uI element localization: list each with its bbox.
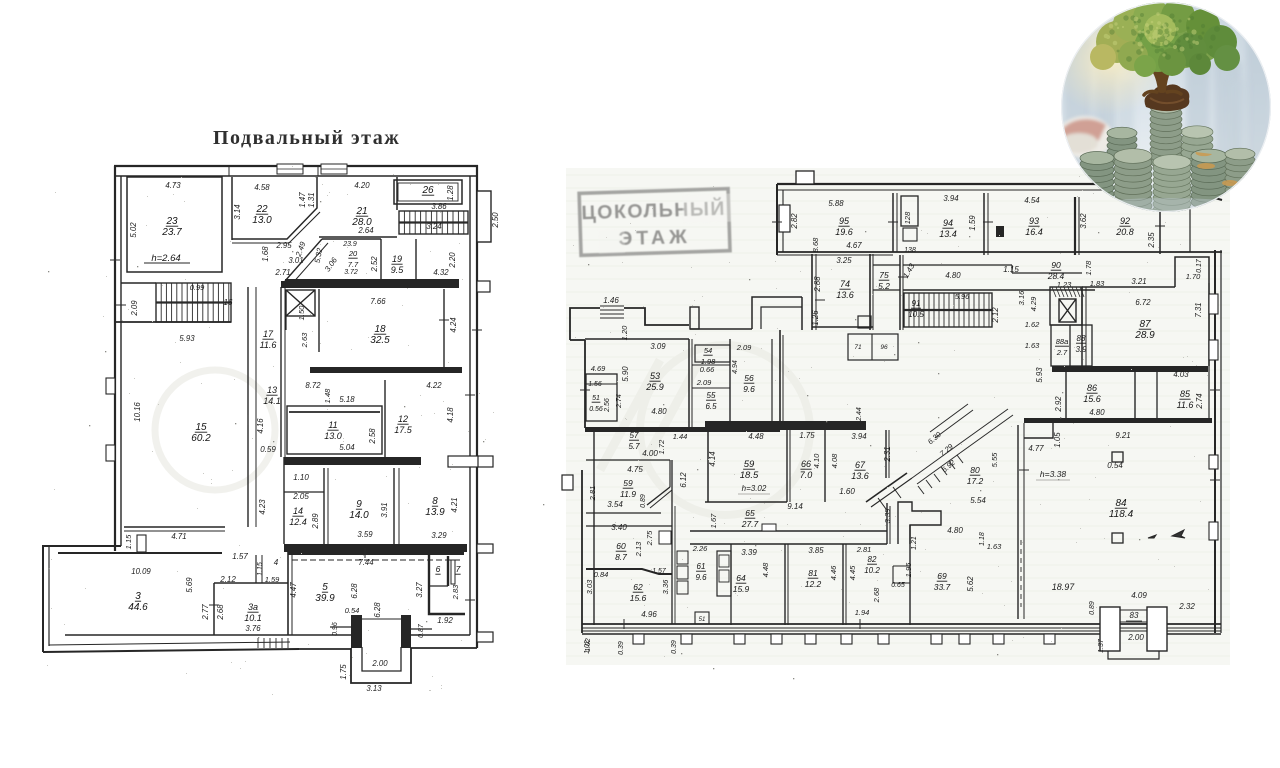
svg-text:4.71: 4.71 (171, 532, 186, 541)
pilaster (681, 634, 692, 644)
svg-text:1.47: 1.47 (298, 192, 307, 208)
svg-text:27.7: 27.7 (741, 519, 759, 529)
left block outer walls (570, 308, 600, 340)
svg-text:2.7: 2.7 (1056, 348, 1068, 357)
svg-text:2.68: 2.68 (872, 587, 881, 603)
room 9 walls (323, 468, 325, 544)
svg-text:3.36: 3.36 (661, 579, 670, 594)
photo sky (1061, 0, 1273, 215)
svg-text:2.82: 2.82 (790, 213, 799, 230)
svg-text:12.4: 12.4 (289, 517, 307, 527)
corridor step walls (1011, 265, 1013, 273)
svg-text:3.14: 3.14 (233, 204, 242, 220)
svg-text:60.2: 60.2 (191, 433, 211, 444)
svg-text:53: 53 (650, 371, 660, 381)
svg-text:1.72: 1.72 (657, 439, 666, 454)
svg-text:4.94: 4.94 (732, 360, 739, 374)
svg-text:5.62: 5.62 (966, 576, 975, 592)
svg-text:4.09: 4.09 (1131, 591, 1147, 600)
left plan (43, 164, 500, 693)
shaft 128 (901, 196, 918, 226)
svg-text:1.92: 1.92 (437, 616, 453, 625)
svg-text:3а: 3а (248, 602, 258, 612)
svg-text:13.4: 13.4 (939, 229, 957, 239)
band steps (762, 524, 776, 531)
svg-text:94: 94 (943, 218, 953, 228)
pilaster (805, 634, 816, 644)
svg-text:3.25: 3.25 (836, 256, 852, 265)
alcove walls right of 69 (898, 502, 941, 544)
right wall pilaster 3 (1209, 455, 1218, 469)
svg-text:28.9: 28.9 (1134, 330, 1155, 341)
svg-text:4.32: 4.32 (433, 268, 449, 277)
svg-text:0.54: 0.54 (345, 606, 360, 615)
stair protrusion bottom (351, 615, 362, 648)
room 26 (394, 180, 462, 204)
photo red blob (1057, 116, 1113, 158)
svg-text:64: 64 (736, 573, 746, 583)
svg-text:4.80: 4.80 (1089, 408, 1105, 417)
stairs left (156, 283, 231, 322)
svg-text:2.92: 2.92 (1054, 396, 1063, 413)
svg-text:44.6: 44.6 (128, 602, 148, 613)
svg-text:0.59: 0.59 (260, 445, 276, 454)
svg-text:2.44: 2.44 (856, 407, 863, 422)
svg-text:5.93: 5.93 (1035, 367, 1044, 383)
svg-text:10.09: 10.09 (131, 567, 151, 576)
svg-text:0.89: 0.89 (1089, 601, 1096, 615)
svg-text:ЭТАЖ: ЭТАЖ (618, 226, 691, 250)
loose coins (1094, 192, 1260, 220)
svg-text:1.28: 1.28 (446, 185, 455, 201)
svg-text:12.2: 12.2 (805, 579, 822, 589)
stairs left lower wall (115, 321, 231, 323)
corridor 4 walls (255, 555, 257, 583)
svg-text:1.59: 1.59 (265, 575, 280, 584)
svg-text:5.69: 5.69 (185, 577, 194, 593)
svg-text:4.10: 4.10 (812, 453, 821, 468)
svg-text:3.94: 3.94 (851, 432, 867, 441)
svg-text:9.6: 9.6 (695, 573, 707, 582)
room 61 marker box (695, 612, 709, 624)
wall band mid (284, 457, 421, 465)
svg-text:4.80: 4.80 (947, 526, 963, 535)
svg-text:2.00: 2.00 (371, 659, 388, 668)
svg-text:85: 85 (1180, 389, 1191, 399)
svg-text:4.47: 4.47 (289, 582, 298, 598)
svg-text:4.69: 4.69 (591, 364, 606, 373)
svg-text:2.09: 2.09 (130, 300, 139, 317)
svg-text:1.75: 1.75 (799, 431, 815, 440)
room 21 (396, 177, 398, 210)
svg-text:61: 61 (697, 562, 706, 571)
svg-text:93: 93 (1029, 216, 1039, 226)
svg-text:21: 21 (355, 206, 367, 217)
svg-text:2.75: 2.75 (645, 530, 654, 546)
window top 1 (277, 164, 303, 174)
svg-text:23: 23 (165, 216, 178, 227)
svg-text:9.6: 9.6 (743, 384, 755, 394)
corridor 65 band walls (690, 530, 887, 532)
svg-text:3.72: 3.72 (344, 269, 358, 276)
svg-text:57: 57 (630, 431, 639, 440)
svg-text:3.09: 3.09 (650, 342, 666, 351)
svg-text:4.80: 4.80 (651, 407, 667, 416)
svg-text:1.15: 1.15 (124, 534, 133, 549)
svg-text:19.6: 19.6 (835, 227, 853, 237)
pilaster (959, 634, 970, 644)
svg-text:h=2.64: h=2.64 (151, 253, 180, 264)
svg-text:3.24: 3.24 (426, 222, 442, 231)
rooms 57 58 column (593, 432, 595, 625)
svg-text:4: 4 (274, 558, 279, 567)
svg-text:33.7: 33.7 (934, 582, 951, 592)
room 64 wc (717, 551, 731, 596)
svg-text:14.1: 14.1 (263, 396, 281, 406)
pilaster (931, 634, 942, 644)
room 18 walls (281, 281, 459, 288)
svg-text:2.71: 2.71 (274, 268, 290, 277)
svg-text:0.39: 0.39 (618, 641, 625, 655)
room 15 (124, 526, 225, 528)
svg-text:92: 92 (1120, 216, 1130, 226)
rooms 61 64 81 82 69 partitions (730, 544, 732, 625)
svg-text:81: 81 (808, 568, 818, 578)
scan noise (47, 166, 1209, 695)
wall band below 19-20 (285, 279, 459, 287)
svg-text:60: 60 (616, 541, 626, 551)
svg-text:4.48: 4.48 (748, 432, 764, 441)
svg-text:4.46: 4.46 (829, 565, 838, 580)
svg-text:4.48: 4.48 (761, 562, 770, 577)
svg-text:h=3.02: h=3.02 (742, 484, 767, 493)
pilaster (878, 634, 889, 644)
svg-text:2.58: 2.58 (368, 428, 377, 445)
wall below 18 (310, 367, 462, 373)
svg-text:0.87: 0.87 (418, 623, 425, 638)
diag stairs 80 (912, 404, 1013, 494)
svg-text:7.44: 7.44 (358, 558, 374, 567)
strip right inner walls (1189, 202, 1191, 252)
room 19 (415, 239, 417, 281)
svg-text:4.14: 4.14 (708, 451, 717, 467)
room 3a walls (214, 582, 288, 584)
svg-text:2.88: 2.88 (813, 276, 822, 293)
svg-text:51: 51 (592, 395, 600, 402)
svg-text:1.26: 1.26 (811, 310, 820, 326)
svg-text:2.52: 2.52 (370, 256, 379, 273)
room 75 (873, 264, 900, 266)
measure ticks (110, 166, 1220, 629)
svg-text:88: 88 (1077, 334, 1086, 343)
svg-text:2.83: 2.83 (451, 584, 460, 600)
svg-text:1.20: 1.20 (620, 325, 629, 340)
svg-text:3.40: 3.40 (611, 523, 627, 532)
tree trunk (1148, 58, 1177, 90)
svg-text:1.62: 1.62 (1025, 320, 1040, 329)
svg-text:13.0: 13.0 (324, 431, 342, 441)
svg-text:4.00: 4.00 (642, 449, 658, 458)
svg-text:32.5: 32.5 (370, 335, 390, 346)
svg-text:13.0: 13.0 (252, 215, 272, 226)
stairs top right (399, 211, 468, 234)
gold coin accents (1196, 152, 1238, 186)
hatch below 3a (258, 638, 288, 648)
svg-text:83: 83 (1130, 611, 1139, 620)
room 5 top band (288, 546, 464, 555)
svg-text:96: 96 (880, 344, 888, 351)
pilaster (841, 634, 852, 644)
svg-text:13.6: 13.6 (851, 471, 869, 481)
svg-text:2.74: 2.74 (616, 394, 623, 409)
svg-text:10.16: 10.16 (133, 402, 142, 422)
svg-text:4.96: 4.96 (641, 610, 657, 619)
top strip protrusion (796, 171, 814, 184)
svg-text:1.48: 1.48 (323, 388, 332, 403)
left protrusion box (562, 475, 573, 490)
svg-text:90: 90 (1051, 260, 1061, 270)
photo edge soft ring (1061, 2, 1270, 211)
svg-text:2.31: 2.31 (883, 446, 892, 462)
top strip left wall (776, 184, 778, 255)
left small box (779, 205, 790, 232)
svg-text:4.77: 4.77 (1028, 444, 1044, 453)
svg-text:5.18: 5.18 (339, 395, 355, 404)
svg-text:17.5: 17.5 (394, 425, 413, 435)
svg-text:80: 80 (970, 465, 980, 475)
pilaster (771, 634, 782, 644)
bottom band right plan (582, 623, 1221, 625)
svg-text:10.2: 10.2 (864, 566, 880, 575)
svg-text:11.6: 11.6 (1177, 400, 1194, 410)
svg-text:16: 16 (224, 298, 233, 307)
window left block (600, 306, 624, 318)
svg-text:7: 7 (456, 564, 461, 574)
svg-text:2.35: 2.35 (1147, 232, 1156, 249)
svg-text:5.90: 5.90 (621, 366, 630, 382)
svg-text:74: 74 (840, 279, 850, 289)
svg-text:7.7: 7.7 (348, 260, 359, 269)
corridor 17-13 walls (247, 287, 249, 527)
svg-text:4.22: 4.22 (426, 381, 442, 390)
svg-text:82: 82 (868, 555, 877, 564)
svg-text:25.9: 25.9 (645, 382, 664, 392)
svg-text:20.8: 20.8 (1115, 227, 1134, 237)
room 20 walls (285, 239, 322, 281)
svg-text:2.74: 2.74 (1195, 393, 1204, 410)
coin stack tall center (1150, 101, 1182, 168)
svg-text:1.02: 1.02 (584, 640, 591, 654)
svg-text:1.63: 1.63 (987, 542, 1002, 551)
svg-text:1.10: 1.10 (293, 473, 309, 482)
svg-text:0.39: 0.39 (671, 640, 678, 654)
corridor to 74 (702, 328, 752, 330)
room 22 walls (231, 177, 233, 240)
svg-text:22: 22 (255, 204, 268, 215)
svg-text:13.9: 13.9 (425, 507, 445, 518)
mid band right box (448, 456, 478, 467)
coin stacks back row (1107, 127, 1137, 164)
svg-text:3.39: 3.39 (883, 508, 892, 523)
svg-text:1.31: 1.31 (307, 192, 316, 207)
dashed line right of 69 (1020, 540, 1022, 607)
svg-text:1.15: 1.15 (257, 562, 264, 576)
pilaster (734, 634, 745, 644)
svg-text:55: 55 (707, 391, 716, 400)
svg-text:2.12: 2.12 (219, 575, 236, 584)
svg-text:59: 59 (623, 478, 633, 488)
photo skyline (1064, 36, 1272, 181)
svg-text:2.09: 2.09 (696, 378, 712, 387)
svg-text:1.50: 1.50 (297, 305, 306, 320)
room 59 walls (707, 430, 709, 502)
svg-text:4.23: 4.23 (258, 499, 267, 515)
svg-text:0.89: 0.89 (640, 494, 647, 508)
room 11 (287, 406, 382, 454)
svg-text:138: 138 (904, 247, 916, 254)
svg-text:10.5: 10.5 (908, 310, 924, 319)
svg-text:5.2: 5.2 (878, 281, 890, 291)
svg-text:3.39: 3.39 (741, 548, 757, 557)
svg-text:84: 84 (1115, 498, 1127, 509)
svg-text:75: 75 (879, 270, 889, 280)
svg-text:19: 19 (392, 254, 402, 264)
faint watermark stroke (600, 360, 700, 470)
svg-text:7.0: 7.0 (800, 470, 813, 480)
right protrusion 2.50 (477, 191, 491, 242)
svg-text:6: 6 (436, 564, 441, 574)
svg-text:4.54: 4.54 (1024, 196, 1040, 205)
svg-text:3.54: 3.54 (607, 500, 623, 509)
svg-text:1.37: 1.37 (1098, 638, 1105, 653)
room 93 door mark (996, 226, 1004, 237)
svg-text:1.68: 1.68 (261, 246, 270, 262)
svg-text:4.20: 4.20 (354, 181, 370, 190)
faint watermark curve mid (640, 345, 810, 515)
svg-text:7.31: 7.31 (1194, 302, 1203, 317)
svg-text:3.59: 3.59 (357, 530, 373, 539)
room 87 walls (1082, 286, 1175, 288)
photo table (1061, 170, 1273, 218)
svg-text:2.64: 2.64 (357, 226, 374, 235)
rooms 88a 88 (1051, 325, 1092, 366)
svg-text:118.4: 118.4 (1109, 509, 1134, 520)
room 66 (824, 430, 826, 502)
svg-text:0.99: 0.99 (190, 283, 205, 292)
svg-text:67: 67 (855, 460, 866, 470)
svg-text:6.12: 6.12 (679, 472, 688, 488)
svg-text:4.18: 4.18 (446, 407, 455, 423)
svg-text:5.54: 5.54 (970, 496, 986, 505)
svg-text:14: 14 (293, 506, 303, 516)
svg-text:16.4: 16.4 (1025, 227, 1043, 237)
svg-text:2.81: 2.81 (856, 545, 872, 554)
svg-text:8.68: 8.68 (811, 237, 820, 252)
svg-text:6.5: 6.5 (705, 402, 717, 411)
svg-text:18: 18 (374, 324, 386, 335)
svg-text:5.93: 5.93 (179, 334, 195, 343)
svg-text:3.94: 3.94 (943, 194, 959, 203)
svg-text:2.68: 2.68 (216, 604, 225, 621)
coin stacks front row (1080, 152, 1114, 207)
svg-text:8.7: 8.7 (615, 552, 627, 562)
bottom outer wall segments (299, 648, 351, 650)
svg-text:13: 13 (267, 385, 277, 395)
svg-text:69: 69 (937, 571, 947, 581)
bottom-left block outer (43, 546, 121, 652)
right wall pilaster 2 (1209, 340, 1218, 360)
elevator block right plan (1050, 287, 1082, 325)
svg-text:3.85: 3.85 (808, 546, 824, 555)
svg-text:2.89: 2.89 (311, 513, 320, 530)
svg-text:0.66: 0.66 (700, 365, 715, 374)
svg-text:3: 3 (135, 591, 141, 602)
room 84 left wall (1017, 425, 1019, 619)
svg-text:9: 9 (356, 499, 362, 510)
svg-text:2.95: 2.95 (275, 241, 292, 250)
outer wall left (114, 166, 116, 551)
svg-text:4.16: 4.16 (256, 418, 265, 434)
svg-text:1.96: 1.96 (904, 562, 913, 577)
svg-text:8: 8 (432, 496, 438, 507)
entry structure bottom right (1100, 607, 1120, 651)
pilaster (1044, 634, 1055, 644)
svg-text:2.26: 2.26 (692, 544, 708, 553)
svg-text:59: 59 (744, 459, 755, 470)
svg-text:4.67: 4.67 (846, 241, 862, 250)
wall band below 85 86 (1024, 418, 1212, 423)
right protrusion small c (477, 544, 493, 553)
bottom inner wall (65, 634, 351, 636)
svg-text:2.00: 2.00 (1127, 633, 1144, 642)
svg-text:1.57: 1.57 (232, 552, 248, 561)
svg-text:0.56: 0.56 (589, 406, 603, 413)
svg-text:6.28: 6.28 (373, 602, 382, 618)
outer wall top (114, 165, 478, 167)
faint watermark circle left (155, 370, 275, 490)
foliage texture (1109, 13, 1220, 62)
diagonal wall from 67 (866, 473, 907, 502)
svg-text:1.44: 1.44 (673, 432, 688, 441)
svg-text:3.16: 3.16 (1017, 290, 1026, 305)
svg-text:18.97: 18.97 (1052, 582, 1076, 592)
room 12 (384, 380, 386, 457)
wall west of 87 (1081, 287, 1083, 366)
chimney box (690, 307, 699, 329)
rooms 71 96 small (848, 334, 898, 360)
small jog walls near 5 (330, 626, 351, 628)
room 85 (1156, 372, 1158, 418)
svg-text:11.9: 11.9 (620, 489, 636, 499)
elevator left plan (286, 290, 315, 316)
pilaster (993, 634, 1004, 644)
svg-text:2.09: 2.09 (736, 343, 752, 352)
right wall pilaster 1 (1209, 294, 1218, 314)
svg-text:23.7: 23.7 (161, 227, 182, 238)
svg-text:18.5: 18.5 (740, 470, 759, 481)
rooms 6 7 (429, 555, 465, 614)
svg-text:2.20: 2.20 (448, 252, 457, 269)
svg-text:1.18: 1.18 (979, 532, 986, 546)
room 84 pen marks (1148, 535, 1156, 538)
window top 2 (321, 164, 347, 174)
svg-text:51: 51 (699, 617, 706, 623)
svg-text:3.01: 3.01 (288, 256, 303, 265)
svg-text:71: 71 (854, 344, 862, 351)
svg-text:1.67: 1.67 (709, 513, 718, 528)
svg-text:3.86: 3.86 (431, 202, 447, 211)
room 61 fixtures (677, 551, 688, 564)
